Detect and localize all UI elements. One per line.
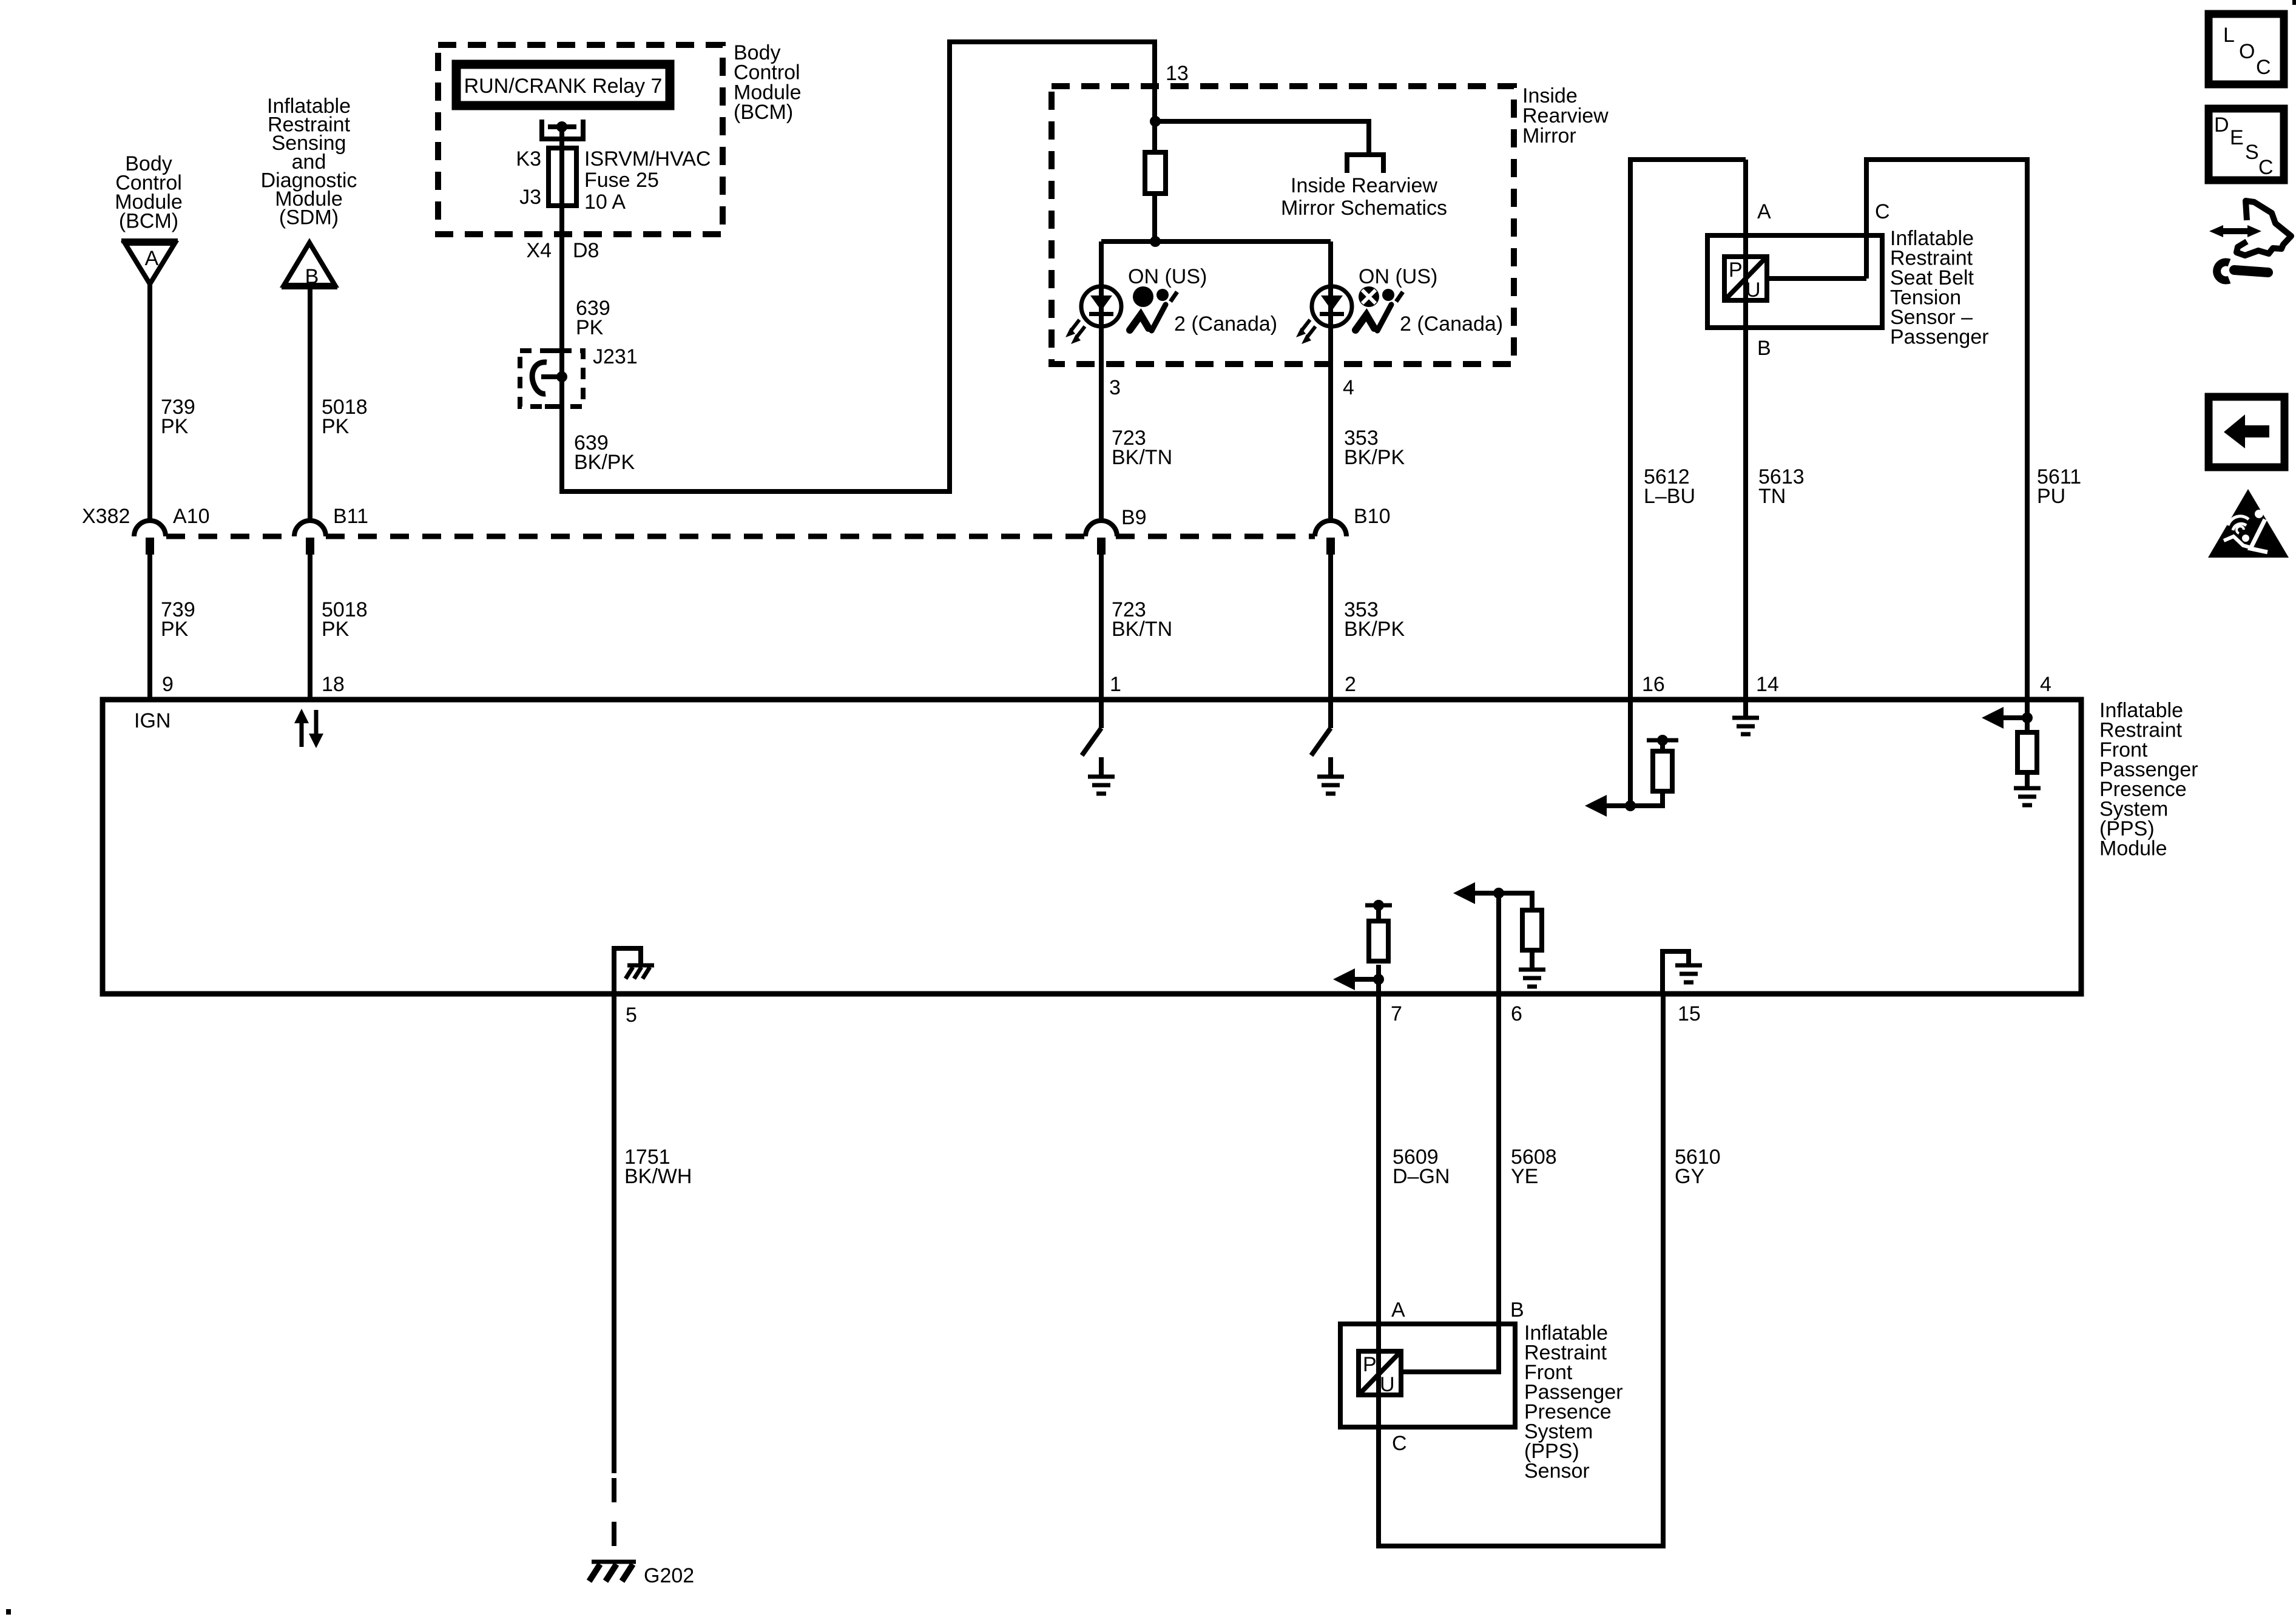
airbag indicator icon left xyxy=(1130,286,1177,331)
fuse K3/J3 ISRVM/HVAC Fuse 25 10 A xyxy=(549,148,576,206)
pressure transducer P/U symbol (PPS sensor) xyxy=(1359,1351,1401,1396)
svg-text:O: O xyxy=(2239,40,2255,63)
wire 5611 PU (pin C loop to PPS pin 4) xyxy=(1866,160,2027,700)
svg-text:P: P xyxy=(1729,258,1743,282)
svg-text:13: 13 xyxy=(1166,62,1189,85)
supply tap bar at pin 7 xyxy=(1365,903,1392,908)
PPS sensor box xyxy=(1340,1324,1515,1427)
connector B9 male pin xyxy=(1097,538,1106,555)
relay inner tap bar xyxy=(548,124,576,129)
connector B11 female arc xyxy=(294,521,326,536)
off-page connector triangle B (SDM) xyxy=(282,243,337,288)
junction dot pin 6 xyxy=(1493,888,1504,899)
svg-text:2 (Canada): 2 (Canada) xyxy=(1400,312,1503,336)
wire dashed segment to G202 xyxy=(612,1478,616,1553)
junction dot node 13 branch xyxy=(1150,116,1161,127)
junction dot pin 7 xyxy=(1373,974,1384,985)
LED emission arrows right xyxy=(1296,320,1315,344)
svg-text:B9: B9 xyxy=(1121,506,1147,529)
svg-text:D: D xyxy=(2214,113,2229,137)
LED emission arrows left xyxy=(1065,320,1085,344)
pull-up resistor at pin 16 xyxy=(1630,743,1663,806)
svg-text:3: 3 xyxy=(1109,376,1121,399)
wire 739 PK (triangle A to X382 A10) xyxy=(147,285,152,521)
svg-text:9: 9 xyxy=(162,673,174,696)
Inside Rearview Mirror dashed outline box xyxy=(1052,86,1514,364)
seat belt tension sensor box xyxy=(1707,235,1882,328)
pull resistor at pin 6 xyxy=(1499,893,1532,968)
ground symbol at pin 4 xyxy=(2014,772,2041,805)
resistor in mirror feed xyxy=(1145,152,1166,194)
measurement arrow at pin 16 xyxy=(1602,803,1630,808)
svg-text:B11: B11 xyxy=(333,505,368,528)
pin 6 internal wire xyxy=(1496,893,1501,994)
svg-text:2: 2 xyxy=(1345,673,1356,696)
connector B11 male pin xyxy=(306,538,314,555)
connector X382 dashed harness line xyxy=(166,534,1315,539)
ground symbol at pin 6 xyxy=(1519,970,1545,987)
wire 639 PK from relay through fuse down and across to riser xyxy=(562,42,1155,491)
svg-text:P: P xyxy=(1363,1353,1377,1376)
wire left LED branch xyxy=(1099,241,1104,521)
pin 16 internal wire xyxy=(1628,700,1633,806)
wire 353 BK/PK (B10 to PPS pin 2) xyxy=(1328,546,1333,700)
pin 7 internal wire xyxy=(1376,979,1381,994)
svg-text:15: 15 xyxy=(1678,1002,1701,1025)
svg-text:A: A xyxy=(145,247,159,270)
svg-text:7: 7 xyxy=(1391,1002,1402,1025)
splice J231 junction dot xyxy=(556,371,567,382)
BCM dashed outline box xyxy=(438,45,723,234)
pull-up resistor at pin 7 xyxy=(1376,907,1381,979)
sidebar LOC icon box xyxy=(2209,14,2284,84)
svg-text:L: L xyxy=(2223,24,2235,47)
ground symbol at pin 1 xyxy=(1088,757,1115,794)
stray mark top right xyxy=(2292,0,2296,5)
sidebar airbag caution triangle icon xyxy=(2208,489,2289,558)
svg-text:B: B xyxy=(305,265,319,288)
svg-text:A: A xyxy=(1391,1298,1405,1322)
svg-text:C: C xyxy=(1875,200,1890,223)
svg-text:U: U xyxy=(1380,1373,1395,1396)
svg-text:ON (US): ON (US) xyxy=(1128,265,1207,288)
connector B10 female arc xyxy=(1315,521,1346,536)
measurement arrow at pin 7 xyxy=(1350,977,1379,982)
svg-text:RUN/CRANK Relay 7: RUN/CRANK Relay 7 xyxy=(464,75,663,98)
svg-text:A: A xyxy=(1757,200,1771,223)
LED indicator left (ON US / 2 Canada) xyxy=(1081,286,1121,326)
junction dot at relay tap xyxy=(556,121,567,132)
measurement arrow at pin 6 xyxy=(1470,891,1499,896)
svg-text:S: S xyxy=(2245,141,2259,164)
svg-text:U: U xyxy=(1746,279,1761,302)
svg-text:C: C xyxy=(1392,1432,1407,1455)
wire 723 BK/TN (B9 to PPS pin 1) xyxy=(1099,546,1104,700)
wire 5613 TN (through belt tension sensor to PPS pin 14) xyxy=(1743,160,1748,716)
wire 1751 BK/WH (PPS pin 5 to G202) xyxy=(612,994,616,1473)
splice J231 stubs and hook xyxy=(541,351,562,407)
svg-text:5: 5 xyxy=(626,1004,637,1027)
svg-text:X382: X382 xyxy=(82,505,130,528)
sidebar DESC icon box xyxy=(2209,109,2284,180)
chassis ground symbol at pin 5 xyxy=(626,965,654,979)
svg-text:C: C xyxy=(2256,56,2271,79)
wire right LED branch xyxy=(1328,241,1333,521)
svg-text:5612L–BU: 5612L–BU xyxy=(1644,465,1695,508)
PPS module box xyxy=(103,700,2081,994)
pin 5 internal elbow to chassis ground xyxy=(614,948,641,994)
splice J231 dashed box xyxy=(520,351,583,407)
svg-text:D8: D8 xyxy=(573,239,599,262)
svg-text:G202: G202 xyxy=(644,1564,694,1587)
svg-text:1: 1 xyxy=(1110,673,1121,696)
wire 5608 YE (PPS pin 6 to sensor pin B) xyxy=(1401,994,1499,1372)
connector B10 male pin xyxy=(1326,538,1335,555)
wire 5609 D-GN (PPS pin 7 to sensor pin A) xyxy=(1379,994,1663,1546)
supply tap bar at pin 16 xyxy=(1647,738,1678,743)
relay title box RUN/CRANK Relay 7 xyxy=(456,64,670,106)
svg-text:C: C xyxy=(2258,156,2274,179)
LED indicator right (ON US / 2 Canada) xyxy=(1312,286,1352,326)
svg-text:X4: X4 xyxy=(526,239,552,262)
wire branch to mirror schematics header xyxy=(1155,121,1369,152)
svg-text:4: 4 xyxy=(2040,673,2051,696)
svg-text:2 (Canada): 2 (Canada) xyxy=(1174,312,1277,336)
connector B9 female arc xyxy=(1086,521,1117,536)
sidebar hand and wrench service icon xyxy=(2209,201,2291,280)
svg-text:B10: B10 xyxy=(1354,505,1391,528)
wire 739 PK (A10 to PPS pin 9) xyxy=(147,546,152,700)
ground symbol at pin 2 xyxy=(1317,757,1344,794)
LED supply rail xyxy=(1101,239,1331,244)
junction dot at LED rail xyxy=(1150,236,1161,247)
svg-text:K3: K3 xyxy=(516,147,541,170)
stray period bottom left xyxy=(6,1609,11,1615)
svg-text:16: 16 xyxy=(1642,673,1665,696)
pin 18 bidirectional arrows xyxy=(294,709,323,748)
svg-text:6: 6 xyxy=(1511,1002,1522,1025)
svg-text:18: 18 xyxy=(322,673,345,696)
svg-text:A10: A10 xyxy=(173,505,210,528)
header plug symbol (to Inside Rearview Mirror Schematics) xyxy=(1347,155,1383,173)
svg-text:J3: J3 xyxy=(519,186,541,209)
junction dot pin 16 xyxy=(1625,800,1636,811)
wire 5018 PK (triangle B to X382 B11) xyxy=(308,288,312,521)
svg-text:14: 14 xyxy=(1756,673,1779,696)
pull-down resistor at pin 4 xyxy=(2017,732,2037,772)
wire 5018 PK (B11 to PPS pin 18) xyxy=(308,546,312,700)
connector A10 female arc xyxy=(134,521,166,536)
junction dot pin 4 xyxy=(2022,712,2033,723)
svg-text:B: B xyxy=(1510,1298,1524,1322)
sidebar back arrow icon box xyxy=(2209,397,2284,467)
switch at pin 2 xyxy=(1328,700,1333,728)
wire 5612 L-BU (loop top to PPS pin 16) xyxy=(1630,160,1746,700)
ground symbol at pin 15 xyxy=(1675,965,1702,982)
ground symbol at pin 14 xyxy=(1732,718,1759,734)
pin 15 internal elbow xyxy=(1663,951,1689,994)
svg-text:E: E xyxy=(2230,126,2244,149)
ground G202 chassis symbol xyxy=(589,1562,636,1581)
svg-text:IGN: IGN xyxy=(134,709,171,732)
pressure transducer P/U symbol (belt tension) xyxy=(1724,257,1767,302)
switch at pin 1 xyxy=(1099,700,1104,728)
svg-text:Inside RearviewMirror Schemati: Inside RearviewMirror Schematics xyxy=(1281,174,1447,220)
off-page connector triangle A (BCM) xyxy=(121,241,178,284)
pin 4 internal wire xyxy=(2025,700,2030,732)
measurement arrow at pin 4 xyxy=(1999,715,2027,720)
connector A10 male pin xyxy=(146,538,154,555)
wire from pin 13 through resistor to LED rail xyxy=(1152,152,1157,241)
svg-text:4: 4 xyxy=(1343,376,1354,399)
svg-text:B: B xyxy=(1757,337,1771,360)
svg-text:ON (US): ON (US) xyxy=(1359,265,1437,288)
relay contact cup symbol xyxy=(539,120,586,139)
svg-text:J231: J231 xyxy=(593,345,638,368)
airbag indicator icon right (crossed) xyxy=(1356,286,1403,331)
wire from P/U to pin C riser xyxy=(1767,276,1866,281)
